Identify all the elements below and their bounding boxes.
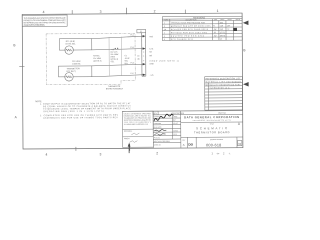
svg-text:THERMISTOR BOARD: THERMISTOR BOARD [194,131,230,134]
wire J1-2 arrowhead [143,47,146,49]
svg-text:5: 5 [143,60,144,62]
svg-text:NEXT ASSY: NEXT ASSY [154,140,162,143]
svg-text:2: 2 [156,151,158,155]
zone tick left [19,66,24,68]
revision approval stamp blob [233,28,237,31]
resistor R1 option area right rail [120,37,122,76]
top-left notes box [22,15,67,26]
svg-text:4: 4 [43,10,45,14]
zone tick top 3 [184,10,186,14]
mfg appd scribble [154,134,165,135]
svg-text:REFERENCE DESIGNATION LIST: REFERENCE DESIGNATION LIST [206,77,242,80]
svg-text:(B): (B) [137,59,140,61]
thermistor RT1 resistor zigzag [65,49,72,51]
svg-text:1: 1 [211,152,213,155]
svg-text:10-17: 10-17 [173,123,178,125]
svg-text:REVISED PER ECO CHNG 00118: REVISED PER ECO CHNG 00118 [171,29,208,31]
revision row 6 [164,38,222,41]
resistor R1 value labels [111,49,119,63]
zone tick bottom 1 [75,147,77,151]
parts list pointer arrow right border [243,82,249,87]
capacitor C1 labels [124,55,130,65]
svg-text:3: 3 [99,152,101,156]
approvals row labels [154,115,163,146]
svg-text:B: B [243,48,245,52]
svg-text:7: 7 [143,75,144,77]
svg-text:TB3: TB3 [149,36,152,38]
svg-text:DATE: DATE [173,115,177,118]
svg-text:4: 4 [45,153,47,157]
svg-text:FL: FL [213,26,215,28]
revision row 1 [164,21,223,24]
svg-text:-1: -1 [229,153,231,155]
fold arrow bottom left [128,144,130,153]
svg-text:A: A [238,122,241,126]
thermistor RT1 bead [65,46,73,54]
svg-text:ENG APPD: ENG APPD [154,126,163,129]
svg-text:72: 72 [227,29,229,31]
revision row 2 [164,25,231,27]
svg-text:UNLESS OTHERWISE SPECIFIED: UNLESS OTHERWISE SPECIFIED [124,113,152,115]
svg-text:ECO CHANGE 0311: ECO CHANGE 0311 [171,38,193,41]
svg-text:SEL: SEL [111,61,115,63]
svg-text:3: 3 [164,32,165,34]
svg-text:P1-7: P1-7 [131,73,135,75]
svg-text:04: 04 [238,142,241,146]
connector J1 label box [137,29,146,32]
svg-text:DATA GENERAL CORPORATION: DATA GENERAL CORPORATION [184,115,239,119]
svg-text:6: 6 [143,64,144,66]
note 1 [40,102,131,113]
svg-text:5.7K: 5.7K [149,49,154,51]
wire J1-7 (RT2 bottom) [92,75,143,77]
svg-text:ORIGINAL ISSUE AND RELEASE FOR: ORIGINAL ISSUE AND RELEASE FOR [171,21,206,24]
wire J1-6 arrowhead [143,63,146,65]
svg-text:P1-6: P1-6 [130,62,134,64]
svg-text:SYM: SYM [164,19,168,21]
svg-text:1: 1 [164,23,165,25]
svg-text:CHECKED: CHECKED [154,123,162,125]
svg-text:REVISED PER ECO 0182 CHG: REVISED PER ECO 0182 CHG [171,32,208,34]
wire J1-7 arrowhead [143,74,146,76]
approvals block grid [153,111,181,148]
svg-text:3/1: 3/1 [220,39,223,41]
svg-text:JW: JW [214,29,217,31]
svg-text:1/7/73: 1/7/73 [220,32,225,34]
note 2 [40,114,119,120]
resistor R1 option area left rail [108,37,110,76]
svg-text:11/8: 11/8 [220,25,224,27]
svg-text:4: 4 [164,36,165,38]
title block top header row [122,110,242,113]
svg-text:OPERATING RNG (SEE 1 IN 1 1/2%: OPERATING RNG (SEE 1 IN 1 1/2% LISTS) [43,110,104,113]
svg-text:1/4W 5%: 1/4W 5% [72,63,80,65]
svg-text:11/2: 11/2 [173,134,176,136]
svg-text:000-618: 000-618 [206,143,221,147]
thermistor RT2 outline box [59,66,92,77]
junction dots on wire J1-2 [115,48,116,49]
svg-text:~VO: ~VO [150,75,154,77]
title block qty cell [153,111,158,115]
svg-text:10/2: 10/2 [220,22,224,24]
svg-text:2: 2 [164,26,165,28]
svg-text:USED ON: USED ON [154,144,161,146]
svg-text:2: 2 [143,48,144,50]
svg-text:B: B [13,43,15,47]
svg-text:REVISIONS: REVISIONS [193,17,205,19]
svg-text:4: 4 [143,55,144,57]
svg-text:DESCRIPTION: DESCRIPTION [172,113,185,115]
svg-text:1K 5% SEL: 1K 5% SEL [65,43,76,45]
svg-text:GND: GND [149,63,154,65]
svg-text:OR PART WITHOUT PERMISSION: OR PART WITHOUT PERMISSION [24,24,46,27]
svg-text:OF: OF [217,153,220,155]
svg-text:QUALITY DESCRIPTION PART: QUALITY DESCRIPTION PART [209,83,240,86]
svg-text:P1-2: P1-2 [130,47,134,49]
border frame [22,13,243,149]
svg-text:5: 5 [164,39,165,41]
svg-text:2/6/73: 2/6/73 [220,35,225,37]
thermistor RT1 outline box [59,39,91,50]
svg-text:12/2: 12/2 [220,29,224,31]
svg-text:COMP (SEE NOTE 1): COMP (SEE NOTE 1) [149,60,179,62]
svg-text:MATERIAL LIST 000-000618: MATERIAL LIST 000-000618 [206,80,241,83]
svg-text:MATERIAL: MATERIAL [124,130,132,133]
svg-text:DRAWING NUMBER: DRAWING NUMBER [210,138,223,141]
svg-text:3: 3 [100,10,102,14]
wire J1-6 (RT2 top) [92,64,143,66]
svg-text:(4): (4) [137,55,140,57]
svg-text:3: 3 [143,52,144,54]
svg-text:DESCRIPTION: DESCRIPTION [186,19,198,21]
svg-text:BOARD ASSEMBLY: BOARD ASSEMBLY [106,87,124,90]
revision table column headers [164,18,241,21]
svg-text:P1-1: P1-1 [130,34,134,36]
revision row 5 [164,35,225,37]
svg-text:10/24: 10/24 [173,130,178,132]
wire J1-2 (RT1 bottom) [92,49,143,50]
rev cell [237,140,241,145]
zone tick top 1 [71,10,73,14]
svg-text:D0I: D0I [188,143,193,147]
svg-text:005-00612: 005-00612 [162,141,170,143]
svg-text:BROUGHT PER ECO NO.000241 REL: BROUGHT PER ECO NO.000241 REL [171,26,211,28]
svg-text:ASSEMBLIES SEE FOR USE OF THI: ASSEMBLIES SEE FOR USE OF THINGS TOOL PA… [43,116,118,119]
svg-text:REVISED PER ECO 0240: REVISED PER ECO 0240 [171,36,204,38]
revision row 3 [164,28,229,31]
svg-text:B8: B8 [149,55,151,57]
connector J1 strip [141,33,143,76]
svg-text:1: 1 [143,36,144,38]
zone tick top 2 [126,8,128,14]
svg-text:REV: REV [182,140,185,142]
svg-text:(NOTE 3): (NOTE 3) [93,61,101,63]
revision row 4 [164,32,225,34]
eng appd signature scribble [154,130,166,132]
drawn signature scribble [154,114,174,121]
svg-text:A: A [15,115,18,119]
thermistor board outline (dash-dot) [46,33,135,84]
svg-text:NC: NC [149,51,152,53]
svg-text:PART NO: PART NO [218,112,226,115]
thermistor RT2 bead [65,73,73,81]
svg-text:2: 2 [223,152,225,155]
parts list table [205,76,243,110]
svg-text:P-1513-1: P-1513-1 [154,137,160,139]
connector J1 pin numbers [143,36,144,77]
svg-text:2: 2 [154,9,156,13]
svg-text:FINISH: FINISH [124,138,130,140]
zone tick bottom 2 [129,144,131,151]
revision table [162,16,242,40]
tolerance note box [122,111,153,147]
svg-text:1: 1 [217,9,219,13]
svg-text:JW: JW [214,35,217,37]
wire J1-1 (RT1 top) [92,36,143,38]
wire J1-1 arrowhead [143,35,146,37]
svg-text:A: A [183,143,185,147]
svg-text:DRAWN: DRAWN [154,115,160,118]
thermistor RT2 resistor zigzag [65,76,72,78]
resistor R2 select labels [93,55,102,62]
svg-text:RT1 (A-B): RT1 (A-B) [66,40,75,43]
title block bottom row dividers [187,137,237,148]
svg-text:S C H E M A T I C: S C H E M A T I C [196,126,227,130]
svg-text:CHK: CHK [214,19,218,21]
revision pointer arrow right border [243,20,249,25]
svg-text:TITLE: TITLE [210,123,214,125]
svg-text:THERMISTOR 1K B: THERMISTOR 1K B [209,87,230,89]
